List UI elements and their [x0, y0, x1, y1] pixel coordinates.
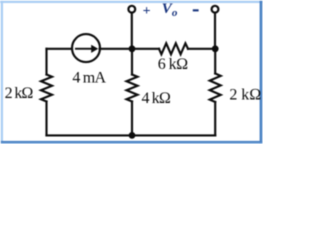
frame bottom border: [1, 141, 262, 143]
svg-text:6 kΩ: 6 kΩ: [158, 56, 189, 73]
resistor R1 2 kOhm left zigzag: [41, 75, 52, 102]
wire: right vertical upper segment: [214, 49, 216, 74]
frame left border: [1, 1, 3, 143]
current source I1 arrow: [75, 45, 98, 53]
resistor R4 6 kOhm horizontal zigzag: [159, 43, 188, 54]
wire: middle vertical lower segment: [131, 102, 133, 136]
svg-text:4 mA: 4 mA: [72, 70, 106, 87]
node C junction dot (bottom mid): [129, 132, 136, 139]
wire: middle node to 6k resistor: [132, 48, 159, 50]
wire: left vertical upper segment: [45, 49, 47, 75]
frame bottom light fade: [1, 142, 262, 145]
svg-text:Vo: Vo: [162, 1, 178, 19]
terminal right open circle: [212, 6, 219, 13]
wire: top-left horizontal from corner to current source: [47, 48, 73, 50]
label minus sign: [193, 9, 199, 11]
wire: middle vertical upper segment: [131, 49, 133, 75]
wire: 6k resistor to right node: [188, 48, 215, 50]
resistor R3 2 kOhm right zigzag: [210, 74, 221, 103]
wire: left vertical lower segment: [45, 102, 47, 136]
svg-text:4 kΩ: 4 kΩ: [142, 90, 172, 107]
node B junction dot (right top): [212, 45, 219, 52]
svg-text:2 kΩ: 2 kΩ: [5, 85, 34, 102]
wire: right vertical lower segment: [214, 102, 216, 135]
terminal left open circle: [128, 6, 135, 13]
annotation + Vo - between terminals: [143, 1, 199, 19]
wire: bottom horizontal: [47, 134, 216, 136]
wire: middle terminal lead down: [131, 13, 133, 48]
frame top border: [0, 1, 263, 3]
resistor R2 4 kOhm middle zigzag: [127, 75, 138, 102]
wire: current source to middle node: [100, 48, 132, 50]
frame right border: [260, 1, 263, 144]
current source I1 circle: [72, 34, 100, 62]
svg-text:2 kΩ: 2 kΩ: [229, 86, 261, 103]
svg-text:+: +: [143, 4, 151, 19]
node A junction dot (mid top): [129, 45, 136, 52]
wire: right terminal lead down: [214, 13, 216, 48]
